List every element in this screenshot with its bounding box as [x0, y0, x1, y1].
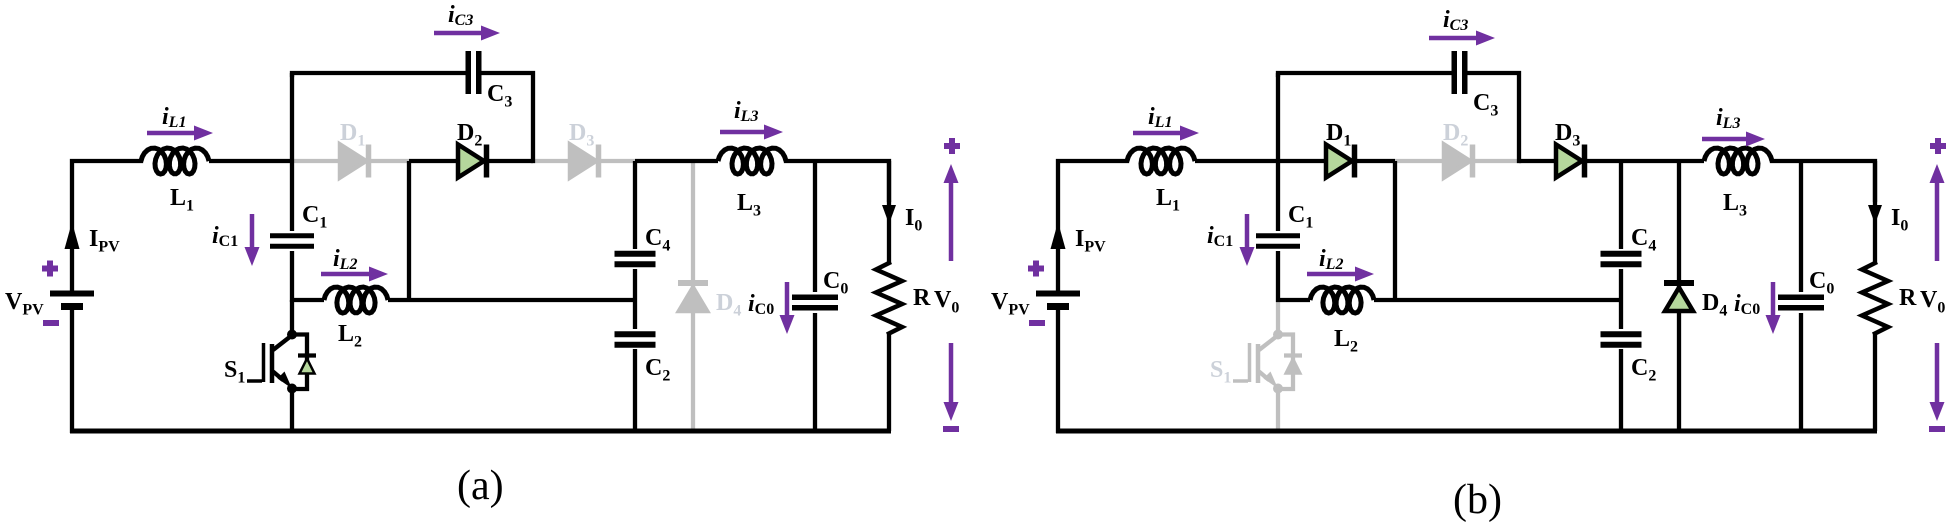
V0 down arrow (a): [949, 343, 954, 404]
wire left rail bottom (a): [70, 310, 74, 434]
svg-text:IPV: IPV: [89, 226, 120, 256]
svg-text:I0: I0: [1891, 205, 1908, 235]
arrow iL1 (a): [147, 131, 196, 136]
inductor L2 (a): [324, 287, 388, 313]
wire C0 branch top (b): [1799, 161, 1803, 292]
diode D1 (b): [1326, 145, 1352, 178]
wire load branch top (a): [887, 161, 891, 264]
svg-text:iL2: iL2: [333, 246, 357, 273]
battery minus sign (b): [1029, 320, 1045, 326]
arrow IPV (b): [1051, 222, 1066, 249]
wire C0 branch bottom (a): [813, 313, 817, 431]
V0 down arrow (b): [1935, 343, 1940, 404]
wire S1 branch lower (b): [1276, 391, 1280, 429]
V0 minus sign (b): [1929, 426, 1945, 432]
V0 up arrow (b): [1935, 181, 1940, 261]
svg-text:D3: D3: [569, 120, 594, 150]
svg-text:V0: V0: [1920, 287, 1945, 317]
arrow iC3 (a): [434, 31, 483, 36]
svg-text:D1: D1: [1326, 120, 1351, 150]
arrow I0 (a): [882, 205, 896, 224]
wire C0 branch bottom (b): [1799, 313, 1803, 431]
svg-text:L3: L3: [1723, 190, 1747, 220]
svg-text:C3: C3: [1473, 90, 1498, 120]
inductor L3 (b): [1704, 148, 1772, 174]
resistor R (b): [1862, 263, 1888, 334]
svg-text:C1: C1: [302, 202, 327, 232]
wire C3 to row (b): [1468, 73, 1519, 161]
transistor S1 node dots (b): [1273, 330, 1283, 340]
svg-text:iC3: iC3: [448, 2, 473, 29]
battery plus sign (a): [42, 266, 58, 272]
wire L2 row left (a): [290, 298, 324, 302]
diode D4 (a): [678, 280, 708, 286]
wire row to L3 (a): [635, 159, 718, 163]
svg-text:iC1: iC1: [212, 223, 238, 250]
wire L1 to node (a): [209, 159, 292, 163]
svg-text:iL1: iL1: [162, 104, 186, 131]
transistor S1 node dots (a): [287, 330, 297, 340]
capacitor C1 (a): [270, 233, 314, 238]
svg-text:S1: S1: [224, 357, 245, 387]
bottom rail (a): [70, 429, 891, 434]
wire D2-anode vertical (a): [407, 161, 411, 300]
svg-text:D4: D4: [716, 290, 741, 320]
svg-text:IPV: IPV: [1075, 226, 1106, 256]
wire C1 branch vertical (a): [290, 73, 294, 231]
wire left rail bottom (b): [1056, 310, 1060, 434]
arrow iL1 (b): [1133, 131, 1182, 136]
V0 up arrow (a): [949, 181, 954, 261]
inductor L2 (b): [1310, 287, 1374, 313]
wire L2 row left (b): [1276, 298, 1310, 302]
wire diode-row segment seg1 (b): [1278, 159, 1395, 163]
wire C2 to bottom (a): [633, 349, 637, 431]
wire C4-C2 mid (a): [633, 269, 637, 329]
wire diode-row segment seg2 (a): [409, 159, 533, 163]
svg-text:(b): (b): [1453, 477, 1502, 523]
wire top branch (a): [292, 73, 465, 75]
V0 minus sign (a): [943, 426, 959, 432]
battery minus sign (a): [43, 320, 59, 326]
svg-text:C3: C3: [487, 81, 512, 111]
wire D4 branch (a): [691, 163, 695, 429]
wire diode-row segment seg2 (b): [1395, 159, 1519, 163]
wire L3 to load corner (a): [786, 161, 889, 200]
capacitor C4 (b): [1601, 251, 1642, 257]
wire C3 to row (a): [482, 73, 533, 161]
svg-text:iC0: iC0: [1734, 291, 1760, 318]
svg-text:iC0: iC0: [748, 291, 774, 318]
wire diode-row segment seg3 (b): [1519, 159, 1621, 163]
wire diode-row segment seg3 (a): [533, 159, 635, 163]
wire L2 row right (b): [1374, 298, 1621, 302]
wire L1 to node (b): [1195, 159, 1278, 163]
svg-text:iL3: iL3: [1716, 105, 1740, 132]
diode D1 (a): [340, 145, 366, 178]
capacitor C2 (b): [1601, 331, 1642, 337]
battery plus sign (b): [1028, 266, 1044, 272]
arrow iL2 (b): [1307, 272, 1357, 277]
arrow iC0 (b): [1771, 282, 1776, 317]
svg-text:C0: C0: [823, 268, 848, 298]
capacitor C3 (b): [1452, 51, 1458, 94]
diode D2 (b): [1444, 145, 1470, 178]
svg-text:C0: C0: [1809, 268, 1834, 298]
V0 plus sign (a): [944, 143, 960, 149]
wire load branch bottom (b): [1873, 333, 1877, 431]
wire D2-anode vertical (b): [1393, 161, 1397, 300]
battery VPV (b): [1036, 291, 1080, 297]
wire load branch bottom (a): [887, 333, 891, 431]
bottom rail (b): [1056, 429, 1877, 434]
transistor S1 antiparallel diode (a): [292, 335, 307, 390]
transistor S1 IGBT body (b): [1248, 343, 1252, 382]
svg-text:VPV: VPV: [991, 289, 1030, 319]
arrow iC0 (a): [785, 282, 790, 317]
wire C1 to L2 node (a): [290, 251, 294, 302]
arrow iC1 (a): [250, 214, 255, 249]
svg-text:iC1: iC1: [1207, 223, 1233, 250]
svg-text:D2: D2: [1443, 120, 1468, 150]
wire row to L3 (b): [1621, 159, 1704, 163]
wire L3 to load corner (b): [1772, 161, 1875, 200]
arrow iL3 (a): [720, 130, 766, 135]
resistor R (a): [876, 263, 902, 334]
arrow IPV (a): [65, 222, 80, 249]
diode D4 (b): [1664, 280, 1694, 286]
svg-text:iL3: iL3: [734, 98, 758, 125]
capacitor C4 (a): [615, 251, 656, 257]
arrow iC1 (b): [1245, 214, 1250, 249]
wire C0 branch top (a): [813, 161, 817, 292]
transistor S1 antiparallel diode (b): [1278, 335, 1293, 390]
wire top branch (b): [1278, 73, 1451, 75]
inductor L1 (a): [141, 148, 209, 174]
inductor L3 (a): [718, 148, 786, 174]
svg-text:V0: V0: [934, 287, 959, 317]
svg-text:iL1: iL1: [1148, 104, 1172, 131]
svg-text:L2: L2: [1334, 326, 1358, 356]
wire left rail top (b): [1058, 161, 1127, 291]
V0 plus sign (b): [1930, 143, 1946, 149]
svg-text:R: R: [1899, 285, 1917, 311]
svg-text:iC3: iC3: [1443, 7, 1468, 34]
wire L2 row right (a): [388, 298, 635, 302]
svg-text:(a): (a): [457, 463, 504, 509]
svg-text:I0: I0: [905, 205, 922, 235]
arrow iL3 (b): [1702, 137, 1748, 142]
svg-text:iL2: iL2: [1319, 246, 1343, 273]
inductor L1 (b): [1127, 148, 1195, 174]
wire C4 branch top (a): [633, 161, 637, 249]
wire S1 branch upper (a): [290, 300, 294, 334]
svg-text:L3: L3: [737, 190, 761, 220]
transistor S1 IGBT body (a): [262, 343, 266, 382]
wire C4-C2 mid (b): [1619, 269, 1623, 329]
svg-text:C4: C4: [645, 225, 670, 255]
svg-text:D4: D4: [1702, 290, 1727, 320]
diode D2 (a): [458, 145, 484, 178]
capacitor C2 (a): [615, 331, 656, 337]
wire C1 to L2 node (b): [1276, 251, 1280, 302]
wire S1 branch upper (b): [1276, 302, 1280, 332]
capacitor C3 (a): [466, 51, 472, 94]
capacitor C1 (b): [1256, 233, 1300, 238]
svg-text:D3: D3: [1555, 120, 1580, 150]
svg-text:S1: S1: [1210, 357, 1231, 387]
wire C2 to bottom (b): [1619, 349, 1623, 431]
arrow iC3 (b): [1429, 36, 1478, 41]
arrow iL2 (a): [321, 272, 371, 277]
svg-text:D2: D2: [457, 120, 482, 150]
arrow I0 (b): [1868, 205, 1882, 224]
svg-text:D1: D1: [340, 120, 365, 150]
svg-text:C1: C1: [1288, 202, 1313, 232]
diode D3 (a): [570, 145, 596, 178]
wire C1 branch vertical (b): [1276, 73, 1280, 231]
svg-text:L2: L2: [338, 321, 362, 351]
wire D4 branch (b): [1677, 161, 1681, 431]
svg-text:L1: L1: [170, 185, 194, 215]
wire diode-row segment seg1 (a): [292, 159, 409, 163]
wire left rail top (a): [72, 161, 141, 291]
wire load branch top (b): [1873, 161, 1877, 264]
svg-text:C2: C2: [645, 355, 670, 385]
svg-text:C4: C4: [1631, 225, 1656, 255]
capacitor C0 (b): [1778, 295, 1824, 301]
svg-text:L1: L1: [1156, 185, 1180, 215]
svg-text:R: R: [913, 285, 931, 311]
battery VPV (a): [50, 291, 94, 297]
svg-text:VPV: VPV: [5, 289, 44, 319]
svg-text:C2: C2: [1631, 355, 1656, 385]
wire S1 branch lower (a): [290, 389, 294, 431]
capacitor C0 (a): [792, 295, 838, 301]
wire C4 branch top (b): [1619, 161, 1623, 249]
diode D3 (b): [1556, 145, 1582, 178]
